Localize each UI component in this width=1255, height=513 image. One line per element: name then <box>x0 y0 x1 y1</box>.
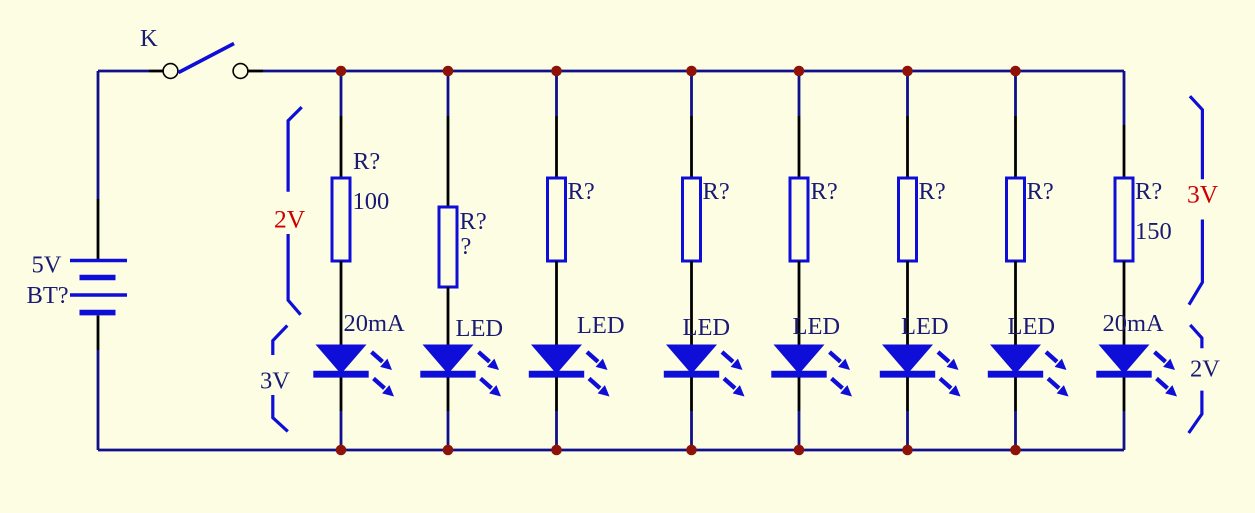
svg-text:R?: R? <box>568 178 595 205</box>
junction node branch7 bottom <box>1010 445 1021 456</box>
junction node branch3 top <box>551 66 562 77</box>
wire branch8 top stub (right rail corner) <box>1123 71 1126 125</box>
voltage brace 3V right upper <box>1189 96 1202 305</box>
resistor R4 top pin (black) <box>690 116 693 178</box>
resistor R3 top pin (black) <box>555 116 558 178</box>
svg-text:LED: LED <box>456 315 504 342</box>
LED D7 symbol <box>988 345 1069 397</box>
junction node branch5 bottom <box>794 445 805 456</box>
resistor R? body (branch 3) <box>548 178 566 261</box>
battery plate 4 short thick <box>80 310 116 316</box>
switch K contact circle right <box>233 64 248 79</box>
resistor R? 150 body (branch 8) <box>1115 178 1133 261</box>
svg-text:K: K <box>140 25 158 52</box>
wire branch3 top stub <box>555 71 558 116</box>
svg-text:LED: LED <box>1008 313 1056 340</box>
junction node branch1 bottom <box>336 445 347 456</box>
svg-text:R?: R? <box>1027 178 1054 205</box>
svg-text:R?: R? <box>1135 178 1162 205</box>
wire branch7 top stub <box>1014 71 1017 116</box>
wire branch2 top stub <box>447 71 450 116</box>
svg-text:3V: 3V <box>1187 180 1219 209</box>
wire branch7 bottom stub <box>1014 411 1017 450</box>
LED D5 symbol <box>771 345 852 397</box>
svg-text:20mA: 20mA <box>1103 310 1165 337</box>
LED D7 bottom pin (black) <box>1014 378 1017 412</box>
resistor R? body (branch 7) <box>1007 178 1025 261</box>
wire branch8 bottom stub <box>1123 411 1126 450</box>
wire branch4 top stub <box>690 71 693 116</box>
wire bottom rail <box>98 449 1124 452</box>
LED D8 symbol <box>1096 345 1177 397</box>
resistor R? ? body (branch 2) <box>439 207 457 287</box>
junction node branch4 bottom <box>686 445 697 456</box>
switch K pin left (black) <box>149 70 163 73</box>
svg-text:LED: LED <box>901 313 949 340</box>
svg-text:R?: R? <box>353 148 380 175</box>
LED D6 symbol <box>880 345 961 397</box>
wire branch5 middle pin (black) <box>798 261 801 345</box>
switch K contact circle left <box>163 64 178 79</box>
LED D3 bottom pin (black) <box>555 378 558 412</box>
wire branch6 middle pin (black) <box>906 261 909 345</box>
resistor R? body (branch 5) <box>790 178 808 261</box>
LED D2 bottom pin (black) <box>447 378 450 412</box>
svg-text:LED: LED <box>683 314 731 341</box>
resistor R2 top pin (black) <box>447 116 450 207</box>
battery plate 1 long <box>70 259 127 262</box>
svg-text:LED: LED <box>577 312 625 339</box>
svg-text:LED: LED <box>793 313 841 340</box>
resistor R5 top pin (black) <box>798 116 801 178</box>
LED D4 symbol <box>664 345 745 397</box>
wire branch2 bottom stub <box>447 411 450 450</box>
junction node branch1 top <box>336 66 347 77</box>
battery BT? top pin (black) <box>97 199 100 259</box>
junction node branch5 top <box>794 66 805 77</box>
wire branch4 middle pin (black) <box>690 261 693 345</box>
wire branch6 top stub <box>906 71 909 116</box>
wire branch4 bottom stub <box>690 411 693 450</box>
LED D3 symbol <box>529 345 610 397</box>
svg-text:R?: R? <box>460 208 487 235</box>
voltage brace 2V left upper <box>288 107 302 315</box>
wire top-left horizontal from battery corner to switch <box>98 70 149 73</box>
voltage brace 3V left lower <box>273 326 288 432</box>
junction node branch3 bottom <box>551 445 562 456</box>
svg-text:100: 100 <box>353 188 390 215</box>
wire branch1 bottom stub <box>340 411 343 450</box>
svg-text:2V: 2V <box>1190 356 1220 383</box>
resistor R? 100 body (branch 1) <box>332 178 350 261</box>
LED D1 bottom pin (black) <box>340 378 343 412</box>
svg-text:150: 150 <box>1135 218 1172 245</box>
junction node branch2 top <box>443 66 454 77</box>
junction node branch6 top <box>902 66 913 77</box>
switch K pin right (black) <box>248 70 263 73</box>
wire branch8 middle pin (black) <box>1123 261 1126 345</box>
LED D4 bottom pin (black) <box>690 378 693 412</box>
switch K lever blade <box>179 44 235 73</box>
LED D6 bottom pin (black) <box>906 378 909 412</box>
battery plate 2 short thick <box>80 275 116 281</box>
junction node branch6 bottom <box>902 445 913 456</box>
wire left vertical lower (battery - to bottom rail) <box>97 350 100 450</box>
resistor R? body (branch 4) <box>683 178 701 261</box>
resistor R7 top pin (black) <box>1014 116 1017 178</box>
resistor R6 top pin (black) <box>906 116 909 178</box>
LED D2 symbol <box>420 345 501 397</box>
resistor R1 top pin (black) <box>340 116 343 178</box>
svg-text:20mA: 20mA <box>344 310 406 337</box>
resistor R8 top pin (black) <box>1123 125 1126 178</box>
LED D5 bottom pin (black) <box>798 378 801 412</box>
svg-text:R?: R? <box>919 178 946 205</box>
battery plate 3 long <box>70 293 127 296</box>
wire left vertical upper (battery + to corner) <box>97 71 100 199</box>
wire top rail from switch to branch 8 <box>263 70 1124 73</box>
wire branch3 bottom stub <box>555 411 558 450</box>
wire branch3 middle pin (black) <box>555 261 558 345</box>
resistor R? body (branch 6) <box>899 178 917 261</box>
wire branch1 middle pin (black) <box>340 261 343 345</box>
wire branch7 middle pin (black) <box>1014 261 1017 345</box>
svg-text:BT?: BT? <box>27 282 69 309</box>
svg-text:?: ? <box>461 233 472 260</box>
wire branch6 bottom stub <box>906 411 909 450</box>
wire branch5 bottom stub <box>798 411 801 450</box>
junction node branch7 top <box>1010 66 1021 77</box>
svg-text:2V: 2V <box>274 205 306 234</box>
svg-text:3V: 3V <box>260 368 290 395</box>
svg-text:R?: R? <box>811 178 838 205</box>
junction node branch4 top <box>686 66 697 77</box>
svg-text:R?: R? <box>703 178 730 205</box>
wire branch1 top stub <box>340 71 343 116</box>
LED D8 bottom pin (black) <box>1123 378 1126 412</box>
svg-text:5V: 5V <box>32 252 62 279</box>
wire branch5 top stub <box>798 71 801 116</box>
junction node branch2 bottom <box>443 445 454 456</box>
wire branch2 middle pin (black) <box>447 287 450 345</box>
LED D1 symbol <box>313 345 394 397</box>
voltage brace 2V right lower <box>1189 325 1202 433</box>
battery bottom pin (black) <box>97 316 100 351</box>
